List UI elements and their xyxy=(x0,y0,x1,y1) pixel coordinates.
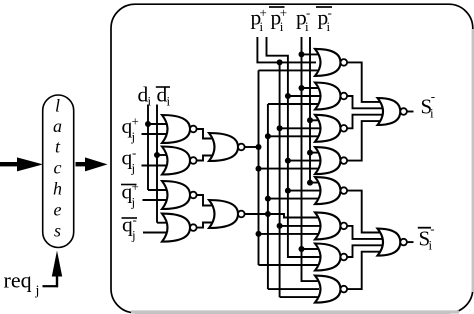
svg-text:s: s xyxy=(54,221,61,241)
svg-text:j: j xyxy=(131,129,136,144)
NOR gate U9 xyxy=(315,115,341,142)
label q-bar_j^- xyxy=(122,217,138,219)
wire d-bar_i to U4 upper xyxy=(157,222,167,224)
label s-bar_i^- xyxy=(418,227,431,229)
enclosure box grey bottom edge xyxy=(131,310,459,313)
NOR gate U7 xyxy=(315,49,341,76)
wire U2 out to U5 xyxy=(197,156,213,161)
node d_i tap U1 xyxy=(145,121,151,127)
wire U5 net to U7 lower xyxy=(259,69,320,71)
svg-text:j: j xyxy=(35,284,40,299)
svg-text:req: req xyxy=(4,268,32,293)
arrow latches to box xyxy=(76,162,86,166)
node U5 out tee xyxy=(256,144,262,150)
NOR gate U14 xyxy=(315,276,341,303)
wire d_i vertical xyxy=(147,105,149,191)
wire U5 net vertical xyxy=(258,70,260,265)
svg-text:-: - xyxy=(132,145,136,160)
svg-text:c: c xyxy=(54,158,62,178)
svg-text:+: + xyxy=(132,114,139,129)
wire d_i to NOR U3 upper xyxy=(148,189,167,191)
enclosure box grey right edge xyxy=(472,29,474,292)
NOR gate U8 xyxy=(315,83,341,110)
wire U10 to O1 xyxy=(347,121,381,161)
svg-text:j: j xyxy=(131,195,136,210)
wire U8 to O1 xyxy=(347,96,383,108)
req wire xyxy=(43,285,59,287)
wire s_i^- output xyxy=(407,111,414,113)
node d-bar_i tap U2 xyxy=(154,152,160,158)
svg-text:i: i xyxy=(280,19,284,34)
wire U4 out to U6 xyxy=(197,223,213,228)
svg-text:j: j xyxy=(131,228,136,243)
wire U12 to O2 xyxy=(347,226,383,239)
svg-text:i: i xyxy=(167,94,171,109)
wire U13 to O2 xyxy=(347,245,383,257)
NOR gate U13 xyxy=(315,244,341,271)
svg-text:+: + xyxy=(132,179,139,194)
svg-text:e: e xyxy=(54,200,62,220)
wire U6 net to U14 middle xyxy=(268,288,319,290)
wire U3 out to U6 xyxy=(197,195,213,206)
label d-bar_i xyxy=(156,86,170,88)
svg-text:+: + xyxy=(260,5,267,20)
wire p-bar+ to U8 middle xyxy=(285,93,291,99)
wire U5 output xyxy=(245,146,259,148)
svg-text:i: i xyxy=(430,106,434,121)
enclosure box xyxy=(111,4,473,313)
svg-text:h: h xyxy=(53,179,62,199)
NOR gate U2 xyxy=(162,147,190,175)
label q-bar_j^+ xyxy=(121,184,137,186)
wire d-bar tap to U2 upper xyxy=(157,154,167,156)
wire p+ to U9 middle xyxy=(277,125,283,131)
wire p- to U7 upper xyxy=(299,51,305,57)
node U6 out tee xyxy=(265,211,271,217)
wire p-bar+ drop xyxy=(267,37,321,257)
NOR gate U12 xyxy=(315,212,341,239)
NOR gate U15 (s output) xyxy=(378,98,401,125)
wire U6 net vertical xyxy=(267,104,269,289)
NOR gate U10 xyxy=(315,147,341,174)
node p+ join xyxy=(277,59,283,65)
wire p-bar+ to U10 middle xyxy=(285,158,291,164)
wire p_i^+ drop xyxy=(257,37,316,62)
wire U6 net to U9 lower xyxy=(265,133,271,139)
label p-bar_i^- xyxy=(316,6,332,8)
svg-text:l: l xyxy=(55,96,60,116)
wire d-bar_i vertical xyxy=(156,105,158,223)
svg-text:-: - xyxy=(431,89,435,104)
wire p-bar+ to U11 middle xyxy=(285,188,291,194)
wire p-bar- drop xyxy=(310,37,319,183)
wire d_i tap to U1 upper xyxy=(148,123,167,125)
label p-bar_i^+ xyxy=(269,6,285,8)
wire s-bar_i^- output xyxy=(407,241,414,243)
svg-text:j: j xyxy=(131,161,136,176)
wire p+ to U14 lower xyxy=(280,296,319,298)
svg-text:i: i xyxy=(327,19,331,34)
svg-text:a: a xyxy=(53,116,62,136)
NOR gate U4 xyxy=(162,214,190,242)
node p-bar- end xyxy=(307,180,313,186)
req arrowhead xyxy=(52,251,62,277)
wire U14 to O2 xyxy=(347,252,381,289)
NOR gate U5 xyxy=(209,133,238,161)
svg-text:-: - xyxy=(328,5,332,20)
latches stadium box xyxy=(43,95,74,248)
wire p+ to U12 middle xyxy=(277,223,283,229)
wire U5 net to U13 lower xyxy=(259,264,320,266)
wire p-bar- to U9 upper xyxy=(307,117,313,123)
svg-text:+: + xyxy=(280,5,287,20)
wire U6 net to U8 lower xyxy=(268,103,319,105)
NOR gate U16 (s-bar output) xyxy=(378,229,401,256)
wire U7 to O1 xyxy=(347,62,381,102)
wire U5 net to U10 lower xyxy=(256,166,262,172)
wire U6 output xyxy=(245,214,319,218)
svg-text:i: i xyxy=(260,19,264,34)
NOR gate U3 xyxy=(162,181,190,209)
wire U9 to O1 xyxy=(347,115,383,129)
wire U6 net to U11 lower xyxy=(265,196,271,202)
wire q_j^+ xyxy=(142,133,168,135)
latches text xyxy=(53,96,62,241)
wire U11 to O2 xyxy=(347,191,381,233)
wire q_j^- xyxy=(142,165,168,167)
NOR gate U6 xyxy=(209,200,238,228)
wire U1 out to U5 xyxy=(197,129,213,139)
svg-text:i: i xyxy=(305,19,309,34)
NOR gate U1 xyxy=(162,115,190,143)
svg-text:-: - xyxy=(306,5,310,20)
svg-text:i: i xyxy=(429,238,433,253)
wire U5 net to U12 lower xyxy=(256,231,262,237)
svg-text:-: - xyxy=(430,221,434,236)
NOR gate U11 xyxy=(315,177,341,204)
wire p- to U13 upper xyxy=(299,246,305,252)
svg-text:-: - xyxy=(133,212,137,227)
wire p+ net vertical xyxy=(279,62,281,297)
wire q-bar_j^- xyxy=(143,232,167,234)
wire p- drop xyxy=(302,37,320,281)
input arrow into latches xyxy=(0,162,18,166)
wire p- to U8 upper xyxy=(299,85,305,91)
wire q-bar_j^+ xyxy=(143,199,168,201)
wire p-bar- to U10 upper xyxy=(307,150,313,156)
